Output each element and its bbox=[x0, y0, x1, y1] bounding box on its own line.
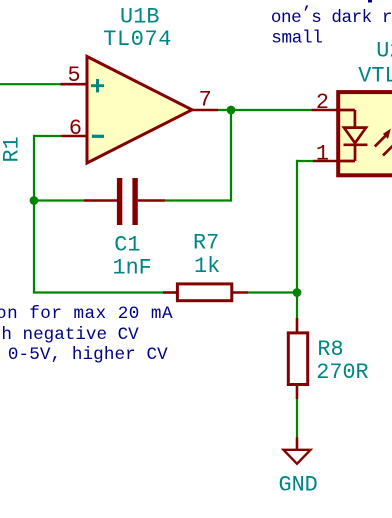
svg-text:2: 2 bbox=[316, 90, 329, 115]
svg-text:270R: 270R bbox=[316, 360, 368, 385]
svg-text:C1: C1 bbox=[114, 233, 140, 258]
svg-text:1: 1 bbox=[316, 141, 329, 166]
svg-text:small: small bbox=[271, 28, 323, 48]
svg-text:0-5V, higher CV: 0-5V, higher CV bbox=[8, 345, 168, 365]
svg-text:VTL5C: VTL5C bbox=[358, 64, 392, 89]
svg-text:GND: GND bbox=[279, 473, 318, 498]
svg-text:TL074: TL074 bbox=[103, 27, 171, 52]
svg-text:R1: R1 bbox=[0, 136, 25, 162]
svg-text:on for max 20 mA: on for max 20 mA bbox=[0, 304, 173, 324]
svg-text:one’s dark r: one’s dark r bbox=[271, 5, 392, 29]
svg-text:1k: 1k bbox=[194, 254, 220, 279]
svg-text:5: 5 bbox=[68, 63, 81, 88]
svg-text:6: 6 bbox=[69, 116, 82, 141]
svg-text:U2: U2 bbox=[376, 38, 392, 63]
svg-text:U1B: U1B bbox=[120, 4, 160, 29]
svg-text:R8: R8 bbox=[317, 337, 343, 362]
svg-text:7: 7 bbox=[199, 88, 212, 113]
svg-text:h negative CV: h negative CV bbox=[1, 325, 139, 345]
svg-text:R7: R7 bbox=[193, 231, 219, 256]
svg-text:1nF: 1nF bbox=[113, 256, 152, 281]
